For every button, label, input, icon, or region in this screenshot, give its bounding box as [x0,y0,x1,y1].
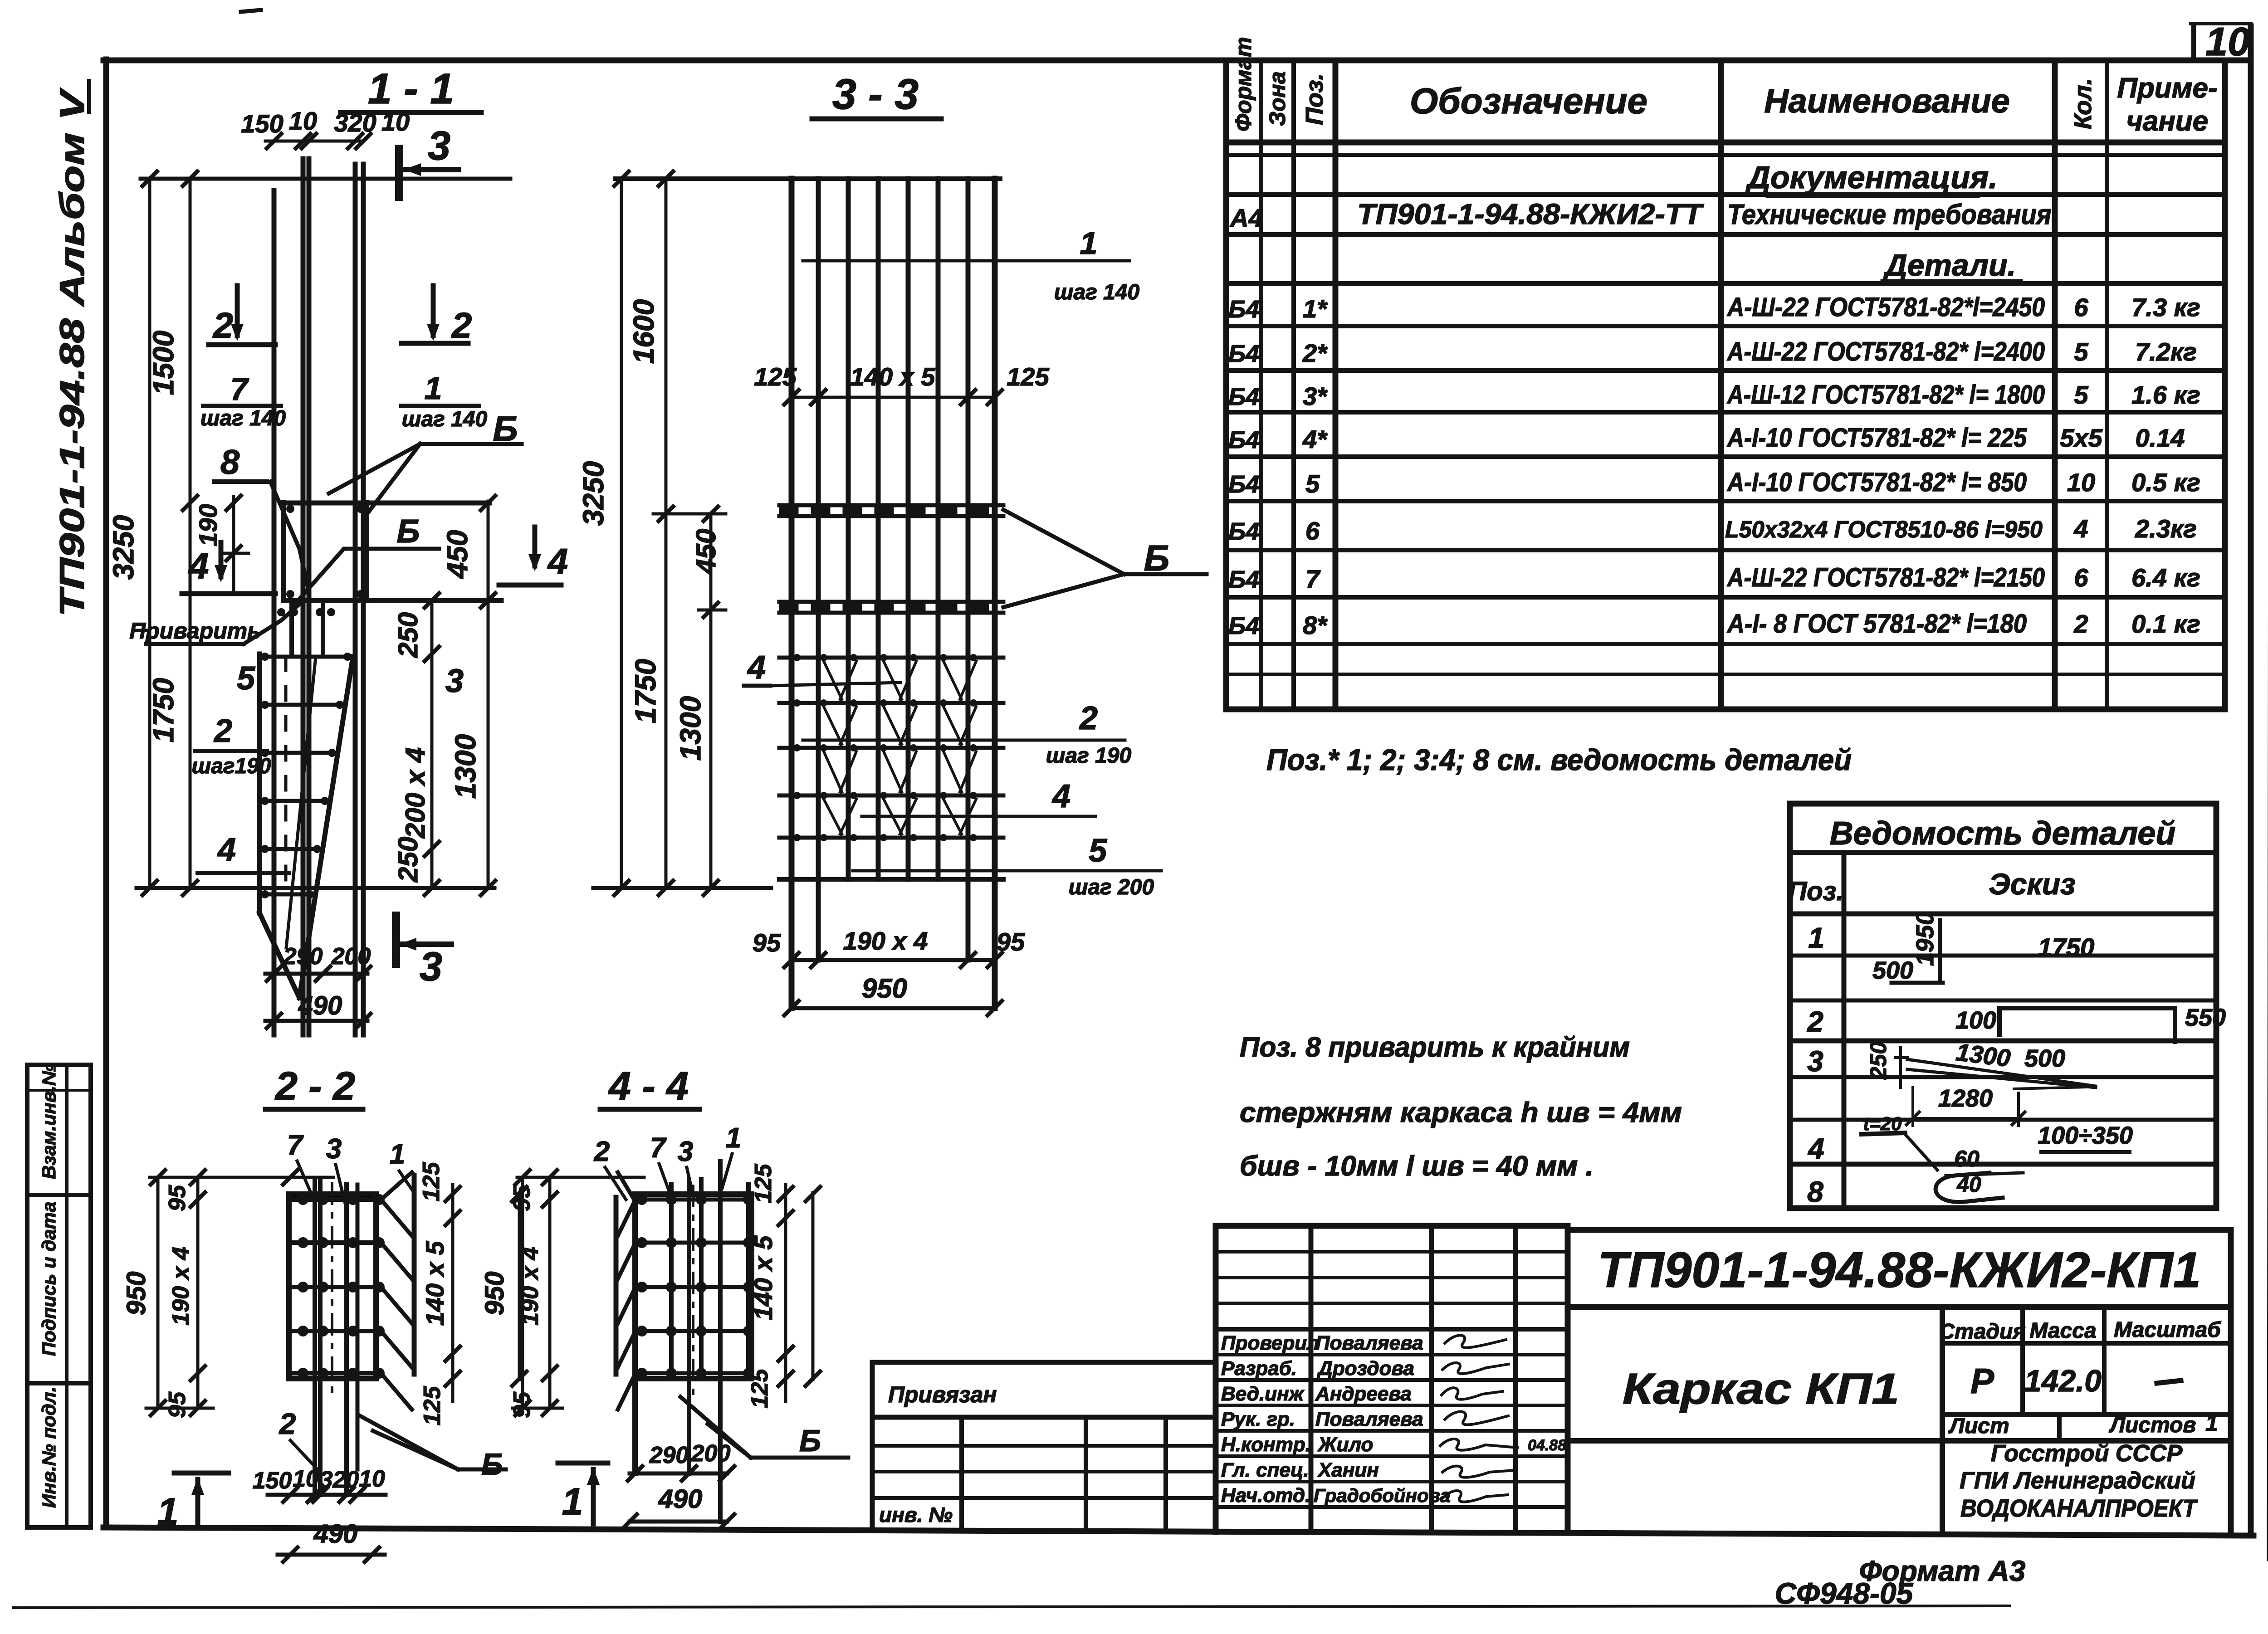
svg-text:Поз.: Поз. [1301,73,1328,125]
svg-text:ТП901-1-94.88 Альбом V: ТП901-1-94.88 Альбом V [53,88,92,617]
svg-text:250: 250 [393,837,423,883]
svg-text:1: 1 [562,1480,583,1523]
svg-text:2 - 2: 2 - 2 [274,1063,355,1108]
svg-text:450: 450 [691,529,721,575]
svg-text:95: 95 [753,928,781,957]
svg-text:ТП901-1-94.88-КЖИ2-ТТ: ТП901-1-94.88-КЖИ2-ТТ [1357,198,1704,230]
svg-text:1 - 1: 1 - 1 [368,65,454,113]
svg-text:4 - 4: 4 - 4 [608,1063,689,1108]
svg-text:2: 2 [451,305,472,346]
svg-text:Зона: Зона [1265,71,1290,126]
page number box 10 [2191,19,2251,64]
svg-text:10: 10 [289,107,317,135]
title block right part [1568,1230,2231,1534]
svg-text:95: 95 [997,927,1025,956]
svg-text:шаг 200: шаг 200 [1069,875,1154,899]
svg-text:Р: Р [1970,1361,1994,1401]
svg-text:250: 250 [393,612,423,658]
svg-text:5: 5 [1089,833,1107,869]
svg-text:1950: 1950 [1911,912,1939,966]
svg-text:490: 490 [658,1484,703,1514]
svg-text:100÷350: 100÷350 [2038,1122,2133,1149]
svg-text:0.5 кг: 0.5 кг [2131,468,2200,497]
svg-text:1750: 1750 [2038,933,2095,961]
svg-text:0.1 кг: 0.1 кг [2131,610,2200,638]
svg-text:Б4: Б4 [1228,383,1259,410]
svg-text:1500: 1500 [147,331,180,395]
svg-text:4: 4 [217,832,236,868]
svg-text:ВОДОКАНАЛПРОЕКТ: ВОДОКАНАЛПРОЕКТ [1960,1495,2198,1522]
svg-text:10: 10 [2205,19,2250,64]
svg-text:1300: 1300 [449,734,482,799]
svg-text:Подпись и дата: Подпись и дата [38,1202,59,1356]
svg-text:6: 6 [1305,517,1320,545]
svg-text:60: 60 [1954,1146,1980,1171]
svg-text:бшв - 10мм l шв = 40 мм .: бшв - 10мм l шв = 40 мм . [1240,1151,1593,1182]
svg-text:5: 5 [2074,380,2088,409]
svg-text:Б: Б [481,1447,503,1482]
svg-text:Технические требования.: Технические требования. [1727,199,2058,230]
bar 1 with hatch view 2-2 [412,1176,417,1374]
svg-text:Взам.инв.№: Взам.инв.№ [38,1064,59,1179]
svg-text:Поваляева: Поваляева [1315,1408,1423,1430]
svg-text:200: 200 [691,1440,731,1467]
svg-text:Ведомость деталей: Ведомость деталей [1830,815,2176,852]
svg-text:5: 5 [1305,469,1320,498]
svg-text:Нач.отд.: Нач.отд. [1221,1484,1310,1507]
svg-text:95: 95 [509,1185,535,1211]
svg-text:шаг 190: шаг 190 [1046,744,1132,768]
svg-text:125: 125 [1007,362,1049,391]
svg-text:1: 1 [157,1490,179,1533]
svg-text:1: 1 [390,1139,405,1170]
svg-text:4: 4 [2073,514,2088,543]
svg-text:ТП901-1-94.88-КЖИ2-КП1: ТП901-1-94.88-КЖИ2-КП1 [1598,1242,2201,1298]
svg-text:6.4 кг: 6.4 кг [2131,563,2200,592]
svg-text:2*: 2* [1302,339,1328,367]
svg-text:95: 95 [509,1391,535,1418]
svg-text:150: 150 [241,109,283,138]
svg-text:Разраб.: Разраб. [1221,1357,1297,1380]
svg-text:490: 490 [313,1519,358,1549]
svg-text:290: 290 [649,1442,689,1468]
svg-text:6: 6 [2074,563,2088,592]
svg-text:Проверил: Проверил [1221,1332,1319,1354]
vedomost detaley table [1790,804,2216,1208]
svg-text:Каркас КП1: Каркас КП1 [1623,1365,1899,1413]
privyazan sub-table [872,1362,1216,1528]
svg-text:Б4: Б4 [1228,471,1259,498]
svg-text:Кол.: Кол. [2069,78,2097,129]
bottom-left margin stamp strip [27,1065,91,1527]
svg-text:Приме-: Приме- [2117,73,2217,104]
svg-text:1.6 кг: 1.6 кг [2131,380,2200,409]
svg-text:3: 3 [1807,1045,1823,1078]
svg-text:200: 200 [331,943,371,970]
svg-text:ГПИ Ленинградский: ГПИ Ленинградский [1960,1468,2195,1494]
svg-text:шаг 140: шаг 140 [200,406,286,430]
svg-text:Поз. 8 приварить к крайним: Поз. 8 приварить к крайним [1240,1032,1630,1063]
svg-text:950: 950 [480,1272,509,1316]
svg-text:2: 2 [1807,1005,1823,1038]
svg-text:Н.контр.: Н.контр. [1221,1434,1311,1456]
svg-text:500: 500 [1872,957,1913,984]
svg-text:1: 1 [2205,1410,2218,1436]
svg-text:Жило: Жило [1317,1434,1373,1456]
title block stamp table [1216,1226,1568,1532]
svg-text:Инв.№ подл.: Инв.№ подл. [38,1387,59,1508]
svg-text:Эскиз: Эскиз [1989,867,2076,901]
svg-text:125: 125 [418,1162,445,1202]
svg-text:100: 100 [1955,1007,1996,1034]
svg-text:190: 190 [194,504,222,546]
svg-text:8: 8 [1807,1176,1823,1208]
svg-text:4: 4 [1807,1132,1824,1165]
svg-text:3: 3 [420,944,442,990]
dim lines 3250/1500/1750 [148,179,152,888]
svg-text:7: 7 [1305,565,1321,593]
svg-text:Б4: Б4 [1228,566,1259,593]
svg-text:шаг 140: шаг 140 [402,407,488,431]
svg-text:490: 490 [298,991,342,1020]
svg-text:10: 10 [2067,468,2095,497]
svg-text:3250: 3250 [107,515,140,580]
svg-text:250: 250 [1866,1041,1891,1080]
svg-text:950: 950 [862,973,907,1004]
svg-text:Б: Б [1144,538,1170,578]
svg-text:8*: 8* [1303,611,1328,639]
svg-text:Госстрой СССР: Госстрой СССР [1991,1440,2183,1467]
svg-text:2.3кг: 2.3кг [2135,514,2197,543]
svg-text:Стадия: Стадия [1939,1320,2025,1344]
view 2-2 [122,1063,527,1562]
svg-text:450: 450 [441,530,474,580]
svg-text:Дроздова: Дроздова [1316,1357,1414,1380]
view 4-4 [480,1063,848,1529]
lower grid trapezoid view 1-1 [257,654,262,913]
svg-text:550: 550 [2185,1004,2226,1031]
svg-text:3: 3 [428,123,450,169]
view 1-1 [107,65,568,1035]
svg-text:L50x32x4 ГОСТ8510-86 l=950: L50x32x4 ГОСТ8510-86 l=950 [1725,517,2043,543]
svg-text:7.3 кг: 7.3 кг [2131,293,2200,322]
svg-text:Поваляева: Поваляева [1315,1332,1423,1354]
svg-text:чание: чание [2126,106,2208,137]
svg-text:3250: 3250 [577,461,610,526]
svg-text:Б4: Б4 [1228,426,1259,454]
svg-text:А-Ш-22 ГОСТ5781-82* l=2400: А-Ш-22 ГОСТ5781-82* l=2400 [1726,337,2045,366]
svg-text:Листов: Листов [2109,1413,2196,1437]
svg-text:2: 2 [1079,700,1098,737]
svg-text:Поз.: Поз. [1788,877,1844,906]
svg-text:4: 4 [747,649,766,686]
svg-text:10: 10 [381,107,410,136]
svg-text:Б: Б [493,409,518,449]
svg-text:0.14: 0.14 [2136,424,2185,452]
svg-text:А-I-10 ГОСТ5781-82* l= 225: А-I-10 ГОСТ5781-82* l= 225 [1726,423,2027,453]
svg-text:7: 7 [230,371,249,407]
svg-text:СФ948-05: СФ948-05 [1775,1576,1914,1610]
row8 sketch: hook [1936,1173,2023,1202]
svg-text:3: 3 [445,663,464,699]
svg-text:Масштаб: Масштаб [2114,1318,2221,1342]
svg-text:04.88: 04.88 [1528,1437,1566,1454]
svg-text:5: 5 [2074,337,2088,366]
svg-text:150: 150 [253,1468,292,1494]
svg-text:290: 290 [283,943,323,970]
svg-text:190 x 4: 190 x 4 [517,1247,543,1326]
svg-text:125: 125 [750,1164,777,1204]
svg-text:5x5: 5x5 [2060,424,2102,452]
svg-text:Обозначение: Обозначение [1410,81,1647,121]
svg-text:Рук. гр.: Рук. гр. [1221,1408,1295,1430]
svg-text:1300: 1300 [674,696,707,761]
svg-text:Б4: Б4 [1228,612,1259,639]
svg-text:Ханин: Ханин [1317,1459,1379,1481]
svg-text:7: 7 [287,1130,304,1161]
svg-text:инв. №: инв. № [879,1503,953,1527]
svg-text:1750: 1750 [147,678,180,742]
svg-text:Б4: Б4 [1228,518,1259,545]
svg-text:7.2кг: 7.2кг [2135,337,2197,366]
svg-text:2: 2 [594,1136,610,1167]
svg-text:Андреева: Андреева [1315,1383,1412,1405]
svg-text:Б: Б [799,1424,821,1458]
svg-text:4: 4 [547,541,568,581]
svg-text:А-I- 8 ГОСТ 5781-82* l=180: А-I- 8 ГОСТ 5781-82* l=180 [1726,609,2027,639]
svg-text:8: 8 [220,443,240,482]
view 3-3 [577,70,1207,1015]
svg-text:1280: 1280 [1938,1085,1993,1112]
svg-text:t=20: t=20 [1863,1113,1901,1134]
svg-text:Градобойнова: Градобойнова [1314,1485,1451,1506]
upper cage box view 1-1 [283,501,489,506]
svg-text:стержням каркаса h шв = 4мм: стержням каркаса h шв = 4мм [1240,1097,1682,1128]
svg-text:1: 1 [1080,225,1098,261]
svg-text:95: 95 [164,1185,191,1211]
svg-text:Документация.: Документация. [1745,160,1997,195]
svg-text:1*: 1* [1303,294,1328,323]
svg-text:4*: 4* [1302,425,1328,454]
svg-text:А-I-10 ГОСТ5781-82* l= 850: А-I-10 ГОСТ5781-82* l= 850 [1726,468,2027,497]
svg-text:Привязан: Привязан [888,1382,997,1407]
svg-text:190 x 4: 190 x 4 [168,1247,194,1326]
svg-text:Б4: Б4 [1228,296,1259,323]
svg-text:2: 2 [212,305,234,346]
svg-text:4: 4 [188,546,209,586]
svg-text:1: 1 [425,371,442,406]
svg-text:А-Ш-12 ГОСТ5781-82* l= 1800: А-Ш-12 ГОСТ5781-82* l= 1800 [1726,380,2045,410]
svg-text:Б: Б [397,513,420,550]
angle iron bands B view 3-3 [779,503,1003,507]
svg-text:Формат: Формат [1231,37,1256,132]
signatures [1440,1335,1517,1502]
svg-text:2: 2 [279,1407,296,1440]
svg-text:190 x 4: 190 x 4 [843,927,928,955]
row4 sketch [1862,1133,2130,1170]
svg-text:Б4: Б4 [1228,340,1259,367]
svg-text:1600: 1600 [627,299,660,364]
svg-text:140 x 5: 140 x 5 [850,362,936,391]
rebar bars view 3-3 [789,179,795,1008]
svg-text:5: 5 [237,660,255,697]
svg-text:А4: А4 [1229,204,1263,232]
svg-text:950: 950 [122,1272,151,1316]
spec table top right [1226,61,2225,709]
svg-text:125: 125 [747,1369,773,1409]
rebar bars view 1-1 [272,190,277,1035]
svg-text:125: 125 [419,1386,445,1426]
svg-text:2: 2 [213,713,232,749]
svg-text:Гл. спец.: Гл. спец. [1221,1459,1309,1481]
cage rect view 2-2 [289,1191,376,1197]
svg-text:40: 40 [1956,1173,1981,1197]
svg-text:3: 3 [678,1136,693,1167]
svg-text:Масса: Масса [2029,1319,2096,1343]
svg-text:95: 95 [164,1391,191,1418]
svg-text:1: 1 [1808,922,1824,954]
svg-text:500: 500 [2024,1045,2065,1072]
svg-text:шаг190: шаг190 [191,754,271,778]
hatch bar view 4-4 [614,1197,619,1374]
svg-text:140 x 5: 140 x 5 [749,1235,777,1321]
row1 sketch: L-bar 500x1950 [1892,920,1943,983]
svg-text:Лист: Лист [1948,1414,2009,1438]
svg-text:7: 7 [650,1132,667,1164]
svg-text:125: 125 [754,362,797,391]
svg-text:1: 1 [726,1122,741,1154]
svg-text:1750: 1750 [629,659,662,723]
svg-text:шаг 140: шаг 140 [1054,280,1140,304]
svg-text:Детали.: Детали. [1883,248,2016,283]
svg-text:6: 6 [2074,293,2088,322]
svg-text:3*: 3* [1303,382,1328,410]
svg-text:А-Ш-22 ГОСТ5781-82* l=2150: А-Ш-22 ГОСТ5781-82* l=2150 [1726,563,2045,592]
svg-text:А-Ш-22 ГОСТ5781-82*l=2450: А-Ш-22 ГОСТ5781-82*l=2450 [1726,293,2045,322]
svg-text:140 x 5: 140 x 5 [420,1241,449,1326]
svg-text:200 x 4: 200 x 4 [400,747,430,839]
svg-text:3: 3 [326,1133,342,1165]
svg-text:4: 4 [1051,778,1070,815]
svg-text:Вед.инж: Вед.инж [1221,1383,1305,1405]
cage rect view 4-4 [635,1191,752,1197]
svg-text:142.0: 142.0 [2024,1364,2102,1398]
svg-text:Поз.* 1; 2; 3:4; 8 см. ведом: Поз.* 1; 2; 3:4; 8 см. ведомость деталей [1266,743,1852,776]
svg-text:3 - 3: 3 - 3 [832,70,919,118]
svg-text:Наименование: Наименование [1764,82,2010,120]
svg-text:2: 2 [2073,610,2088,638]
